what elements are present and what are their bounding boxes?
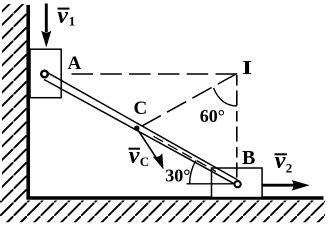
- svg-text:B: B: [242, 147, 255, 169]
- dashed line I to C: [138, 74, 237, 129]
- svg-text:v: v: [129, 143, 140, 169]
- 60-degree arc at I: [214, 88, 237, 106]
- floor: [27, 196, 324, 200]
- svg-text:A: A: [68, 53, 82, 74]
- block B: [212, 168, 263, 198]
- label v1: [57, 3, 75, 29]
- svg-text:60°: 60°: [200, 106, 225, 126]
- svg-text:C: C: [140, 154, 149, 169]
- svg-text:1: 1: [69, 14, 76, 29]
- dashed line A to I: [72, 73, 238, 75]
- block A: [30, 49, 61, 97]
- label v2: [275, 148, 293, 176]
- pin B: [235, 181, 241, 187]
- svg-text:I: I: [242, 57, 252, 79]
- floor hatching: [0, 201, 325, 223]
- 30-degree horizontal reference line at B: [187, 183, 235, 185]
- svg-text:C: C: [134, 98, 148, 119]
- rod AB lower edge: [44, 80, 238, 186]
- dashed line I to B: [236, 75, 238, 181]
- svg-text:2: 2: [286, 161, 293, 176]
- rod centerline dash: [154, 136, 217, 171]
- 30-degree arc at B: [190, 161, 196, 185]
- pin A: [41, 71, 48, 78]
- wall hatching: [2, 4, 27, 222]
- point C: [134, 126, 139, 131]
- svg-text:30°: 30°: [165, 166, 190, 186]
- svg-text:v: v: [275, 148, 286, 174]
- rod AB upper edge: [46, 72, 238, 180]
- wall: [26, 5, 30, 199]
- velocity arrow v2: [262, 180, 310, 191]
- svg-text:v: v: [57, 3, 68, 29]
- velocity arrow vC: [137, 129, 164, 170]
- velocity arrow v1: [41, 4, 51, 48]
- label vC: [129, 143, 150, 169]
